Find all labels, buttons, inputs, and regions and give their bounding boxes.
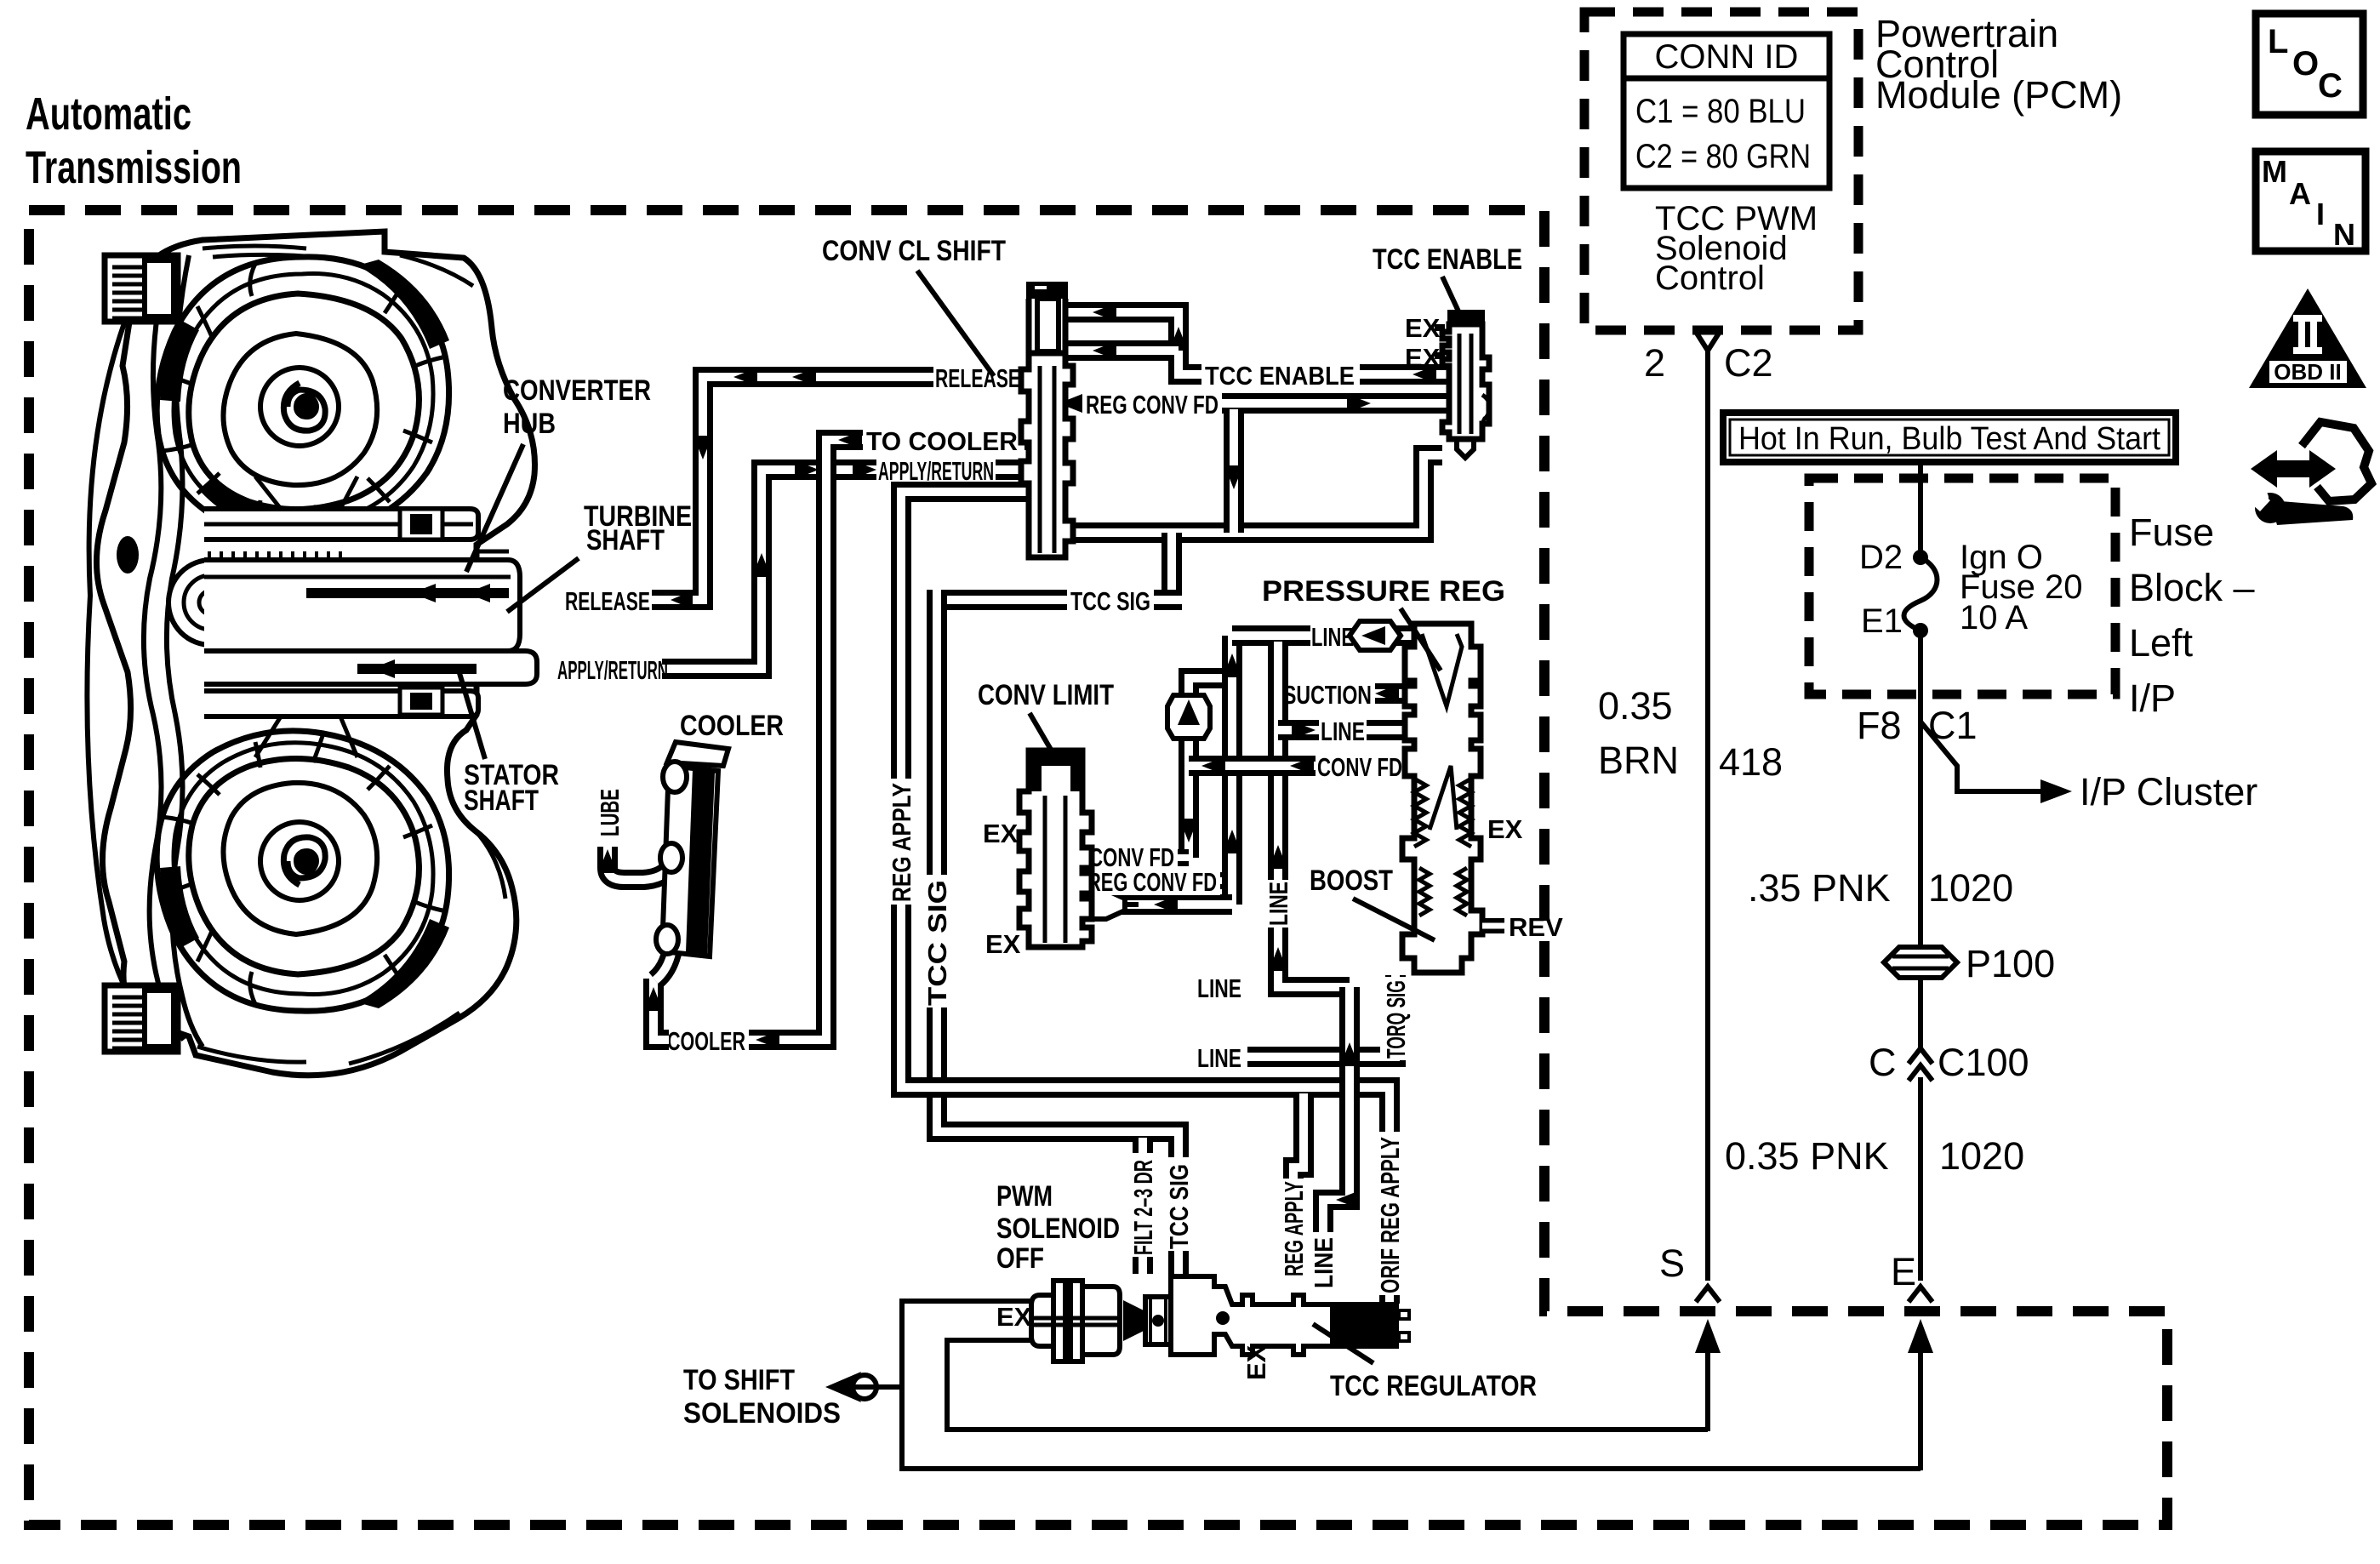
svg-text:TCC SIG: TCC SIG <box>1164 1164 1194 1249</box>
svg-text:1020: 1020 <box>1939 1134 2024 1178</box>
svg-text:REG APPLY: REG APPLY <box>887 783 916 902</box>
label CONV LIMIT <box>978 679 1114 764</box>
converter flexplate wavy left edge <box>144 264 184 1040</box>
arrow S into PCM region <box>1695 1319 1721 1431</box>
svg-text:Hot In Run, Bulb Test And Star: Hot In Run, Bulb Test And Start <box>1738 421 2160 457</box>
converter outer shell <box>96 231 534 1076</box>
wire to I/P Cluster <box>1921 722 2257 813</box>
pipe branch from REG CONV FD down <box>1224 409 1243 533</box>
svg-text:RELEASE: RELEASE <box>935 363 1020 393</box>
pipe LINE feed to pressure reg top <box>1232 620 1438 652</box>
pipe CONV FD to pressure reg <box>1189 751 1414 782</box>
connector C100 <box>1909 1048 1932 1064</box>
pipe TCC SIG mid run <box>937 585 1182 616</box>
ports CONV FD / REG CONV FD at CONV LIMIT <box>1082 842 1222 897</box>
pipe TCC SIG jog <box>1161 528 1182 600</box>
valve PRESSURE REG with BOOST <box>1402 624 1482 973</box>
svg-text:APPLY/RETURN: APPLY/RETURN <box>557 655 668 685</box>
svg-text:Left: Left <box>2129 621 2194 665</box>
pipe TCC SIG long vertical and bottom run <box>922 590 1194 1274</box>
converter top torus <box>157 257 449 537</box>
svg-text:E: E <box>1891 1250 1916 1293</box>
pipe LINE lower horizontal to TORQ SIG <box>1197 975 1411 1073</box>
svg-text:EX: EX <box>985 929 1021 959</box>
label PWM SOLENOID OFF <box>996 1180 1120 1275</box>
svg-text:Module (PCM): Module (PCM) <box>1875 73 2122 117</box>
svg-text:CONVERTER: CONVERTER <box>503 374 651 407</box>
label Powertrain Control Module (PCM) <box>1875 12 2122 117</box>
svg-text:SHAFT: SHAFT <box>586 524 665 557</box>
svg-text:L: L <box>2268 23 2288 60</box>
svg-text:C100: C100 <box>1938 1041 2029 1084</box>
svg-text:OBD II: OBD II <box>2274 359 2341 385</box>
svg-text:COOLER: COOLER <box>680 710 784 742</box>
pipe orifice line from CONV LIMIT <box>1070 890 1232 919</box>
svg-text:ORIF REG APPLY: ORIF REG APPLY <box>1375 1137 1405 1293</box>
svg-text:I: I <box>2316 197 2325 231</box>
svg-text:TORQ SIG: TORQ SIG <box>1381 980 1411 1059</box>
svg-text:2: 2 <box>1644 341 1665 385</box>
svg-text:I/P Cluster: I/P Cluster <box>2080 770 2257 813</box>
fuse Ign O Fuse 20 10 A <box>1859 462 2083 737</box>
svg-text:BOOST: BOOST <box>1310 865 1393 897</box>
PCM label TCC PWM Solenoid Control <box>1655 200 1818 297</box>
pipe FILT 2-3 DR branch <box>1127 1138 1158 1274</box>
svg-text:Automatic: Automatic <box>26 88 191 140</box>
svg-text:HUB: HUB <box>503 408 556 440</box>
svg-text:F8: F8 <box>1857 704 1902 747</box>
svg-text:10 A: 10 A <box>1960 599 2028 636</box>
transmission boundary (dashed) <box>29 210 2167 1525</box>
node TO SHIFT SOLENOIDS <box>683 1364 902 1430</box>
Fuse block boundary (dashed) <box>1809 478 2115 694</box>
svg-text:SHAFT: SHAFT <box>464 785 539 817</box>
svg-text:CONN ID: CONN ID <box>1655 38 1799 76</box>
svg-text:M: M <box>2262 154 2287 189</box>
valve CONV CL SHIFT <box>1021 282 1073 557</box>
connector P100 <box>1884 947 1957 978</box>
svg-text:N: N <box>2333 217 2355 252</box>
label TURBINE SHAFT <box>507 500 692 612</box>
pipe RELEASE (converter to CONV CL SHIFT) <box>648 362 1033 609</box>
icon service arrow-wrench <box>2240 422 2371 525</box>
svg-text:D2: D2 <box>1859 539 1903 576</box>
svg-text:I/P: I/P <box>2129 676 2176 720</box>
hose cooler to return stub <box>655 936 674 980</box>
title Automatic Transmission <box>26 88 242 193</box>
pipe solenoid feed stub <box>1064 341 1179 360</box>
icon MAIN box <box>2256 151 2366 252</box>
label BOOST <box>1310 865 1435 940</box>
converter bolt bottom-left <box>105 985 178 1052</box>
svg-text:EX: EX <box>1487 814 1523 844</box>
stub LINE right arrow <box>1278 715 1414 746</box>
svg-text:Fuse: Fuse <box>2129 511 2214 554</box>
wire fuse to E (.35 PNK 1020 / P100 / C100 / 0.35 PNK 1020) <box>1725 737 2055 1302</box>
svg-text:C: C <box>2318 67 2343 105</box>
svg-text:C2: C2 <box>1724 341 1773 385</box>
svg-text:TCC SIG: TCC SIG <box>922 880 952 1006</box>
svg-text:C2 = 80 GRN: C2 = 80 GRN <box>1635 138 1811 175</box>
svg-text:TCC ENABLE: TCC ENABLE <box>1373 243 1522 276</box>
svg-text:TCC ENABLE: TCC ENABLE <box>1205 361 1355 391</box>
wire E loop from solenoid <box>902 1301 1921 1469</box>
PCM boundary (dashed) <box>1584 12 1858 330</box>
svg-text:E1: E1 <box>1861 602 1903 640</box>
Hot In Run box <box>1723 413 2176 462</box>
pipe TO COOLER <box>664 425 1033 1056</box>
svg-text:CONV CL SHIFT: CONV CL SHIFT <box>822 235 1006 267</box>
solenoid PWM SOLENOID OFF <box>1031 1281 1171 1361</box>
label APPLY/RETURN at converter <box>557 655 668 685</box>
label STATOR SHAFT <box>457 665 559 817</box>
icon LOC box <box>2256 14 2363 115</box>
svg-text:COOLER: COOLER <box>667 1026 745 1056</box>
pipe CONV FD vertical with filter <box>1167 678 1232 862</box>
svg-text:CONV FD: CONV FD <box>1317 752 1402 782</box>
stator shaft tube <box>204 651 537 684</box>
valve CONV LIMIT <box>1019 751 1092 947</box>
svg-text:LINE: LINE <box>1197 973 1241 1003</box>
node F8 C1 <box>1857 704 1978 747</box>
converter bottom torus <box>157 731 449 1011</box>
svg-text:BRN: BRN <box>1598 739 1679 782</box>
svg-text:TO COOLER: TO COOLER <box>866 426 1018 456</box>
cooler body <box>656 742 728 956</box>
svg-text:REV: REV <box>1509 912 1563 942</box>
hub detail blocks <box>400 509 442 539</box>
svg-text:LUBE: LUBE <box>595 789 625 836</box>
label TCC ENABLE <box>1373 243 1522 313</box>
orifice symbol <box>1070 890 1125 919</box>
converter extra internal detail lines <box>197 246 505 1064</box>
svg-text:C1 = 80 BLU: C1 = 80 BLU <box>1635 93 1806 130</box>
svg-text:FILT 2–3 DR: FILT 2–3 DR <box>1128 1160 1158 1255</box>
icon OBD II triangle <box>2249 288 2366 388</box>
labels EX at CONV LIMIT <box>983 819 1021 959</box>
converter damper spring <box>168 560 254 645</box>
valve TCC ENABLE <box>1442 310 1490 458</box>
svg-text:EX: EX <box>1241 1344 1271 1380</box>
svg-text:Transmission: Transmission <box>26 142 242 193</box>
svg-text:SOLENOID: SOLENOID <box>996 1213 1120 1245</box>
label CONVERTER HUB <box>466 374 651 572</box>
svg-text:REG CONV FD: REG CONV FD <box>1086 390 1219 420</box>
svg-text:TCC SIG: TCC SIG <box>1070 586 1150 616</box>
pipe LINE drop to regulator <box>1308 983 1360 1290</box>
PCM CONN ID box <box>1624 34 1829 188</box>
pipe APPLY/RETURN <box>658 454 1033 669</box>
svg-text:OFF: OFF <box>996 1242 1044 1275</box>
svg-text:SOLENOIDS: SOLENOIDS <box>683 1397 841 1430</box>
svg-text:0.35: 0.35 <box>1598 684 1673 728</box>
pipe REG CONV FD riser <box>1223 631 1241 905</box>
pipe LINE main vertical <box>1197 642 1350 1003</box>
pipe TCC ENABLE valve drain to TCC SIG run <box>1065 455 1442 533</box>
pipe REG APPLY vertical + ORIF REG APPLY <box>886 492 1405 1304</box>
labels EX at TCC ENABLE <box>1405 313 1445 373</box>
label CONV CL SHIFT <box>822 235 1006 376</box>
converter bolt top-left <box>105 255 178 322</box>
svg-text:A: A <box>2289 176 2311 211</box>
svg-text:LINE: LINE <box>1264 882 1293 926</box>
svg-text:CONV LIMIT: CONV LIMIT <box>978 679 1114 711</box>
svg-text:EX: EX <box>996 1302 1032 1332</box>
labels Fuse Block Left I/P <box>2129 511 2255 720</box>
label TCC REGULATOR <box>1313 1324 1537 1402</box>
svg-text:LINE: LINE <box>1309 1237 1338 1288</box>
hose LUBE to cooler <box>595 789 674 880</box>
svg-text:S: S <box>1659 1241 1685 1285</box>
port REV at BOOST <box>1482 912 1563 942</box>
svg-text:APPLY/RETURN: APPLY/RETURN <box>878 456 994 486</box>
svg-text:TO SHIFT: TO SHIFT <box>683 1364 795 1396</box>
svg-text:0.35 PNK: 0.35 PNK <box>1725 1134 1889 1178</box>
svg-text:LINE: LINE <box>1321 716 1365 746</box>
turbine shaft tube <box>204 560 520 651</box>
svg-text:REG APPLY: REG APPLY <box>1279 1181 1309 1276</box>
label PRESSURE REG <box>1262 575 1505 671</box>
svg-text:SUCTION: SUCTION <box>1283 680 1372 710</box>
svg-text:P100: P100 <box>1966 942 2055 985</box>
svg-text:.35 PNK: .35 PNK <box>1748 866 1891 910</box>
wire S loop from solenoid <box>947 1340 1708 1430</box>
svg-text:REG CONV FD: REG CONV FD <box>1087 867 1217 897</box>
svg-text:O: O <box>2292 45 2319 83</box>
valve TCC REGULATOR <box>1171 1276 1409 1355</box>
svg-text:PWM: PWM <box>996 1180 1053 1213</box>
pipe REG CONV FD <box>1055 388 1447 420</box>
stub SUCTION <box>1283 680 1414 710</box>
pipe REG APPLY branch to regulator <box>1278 1093 1309 1279</box>
svg-text:Block –: Block – <box>2129 566 2255 609</box>
converter left outer wavy edge <box>87 296 138 1011</box>
label RELEASE at converter <box>565 586 650 616</box>
svg-text:418: 418 <box>1719 740 1783 784</box>
lower hub plate <box>204 691 478 716</box>
svg-text:LINE: LINE <box>1197 1043 1241 1073</box>
svg-text:EX: EX <box>983 819 1019 848</box>
pipe cooler return stub <box>644 979 669 1040</box>
arrow E into PCM region <box>1908 1319 1933 1470</box>
svg-text:TCC REGULATOR: TCC REGULATOR <box>1330 1370 1537 1402</box>
svg-text:C: C <box>1869 1041 1897 1084</box>
wire 2 C2 to S (0.35 BRN 418) <box>1598 332 1783 1302</box>
svg-text:1020: 1020 <box>1928 866 2013 910</box>
converter hub plate <box>204 509 478 539</box>
svg-text:PRESSURE REG: PRESSURE REG <box>1262 575 1505 608</box>
svg-text:RELEASE: RELEASE <box>565 586 650 616</box>
pipe TCC ENABLE (CONV CL SHIFT to TCC ENABLE valve) <box>1064 303 1447 391</box>
svg-text:Control: Control <box>1655 260 1765 297</box>
